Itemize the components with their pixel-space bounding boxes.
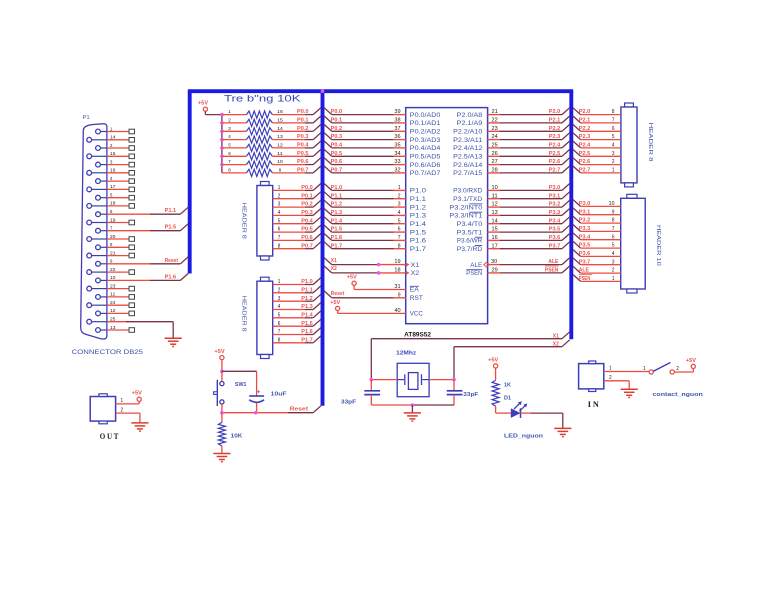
svg-text:+5V: +5V xyxy=(198,101,209,107)
header-right-8 pin 1 wire net P2.7 xyxy=(573,166,621,174)
junction dot resistor rail row 6 xyxy=(220,155,224,159)
svg-text:13: 13 xyxy=(492,210,498,216)
svg-text:P3.7/RD: P3.7/RD xyxy=(457,246,483,253)
header-left-upper pin 7 wire net P0.6 xyxy=(273,235,314,241)
svg-text:2: 2 xyxy=(110,143,113,148)
connector P1 pin 25 xyxy=(87,317,126,325)
svg-text:P0.1: P0.1 xyxy=(297,118,309,124)
U1 pin 36 P0.3/AD3 xyxy=(324,133,441,144)
svg-text:P0.4: P0.4 xyxy=(297,143,309,149)
svg-text:PSEN: PSEN xyxy=(545,267,559,273)
wire net P1.1 from DB25 to bus xyxy=(150,207,188,214)
wire +5V down to reset node xyxy=(220,360,224,373)
resistor network RN1 element 4 (10K) xyxy=(222,134,313,143)
bus entry P0.1 from resistor pack xyxy=(313,116,321,123)
U1 pin 30 ALE xyxy=(470,258,569,269)
svg-text:+5V: +5V xyxy=(132,391,143,397)
U1 pin 4 P1.3 xyxy=(324,209,426,220)
svg-text:15: 15 xyxy=(110,151,116,156)
resistor network RN1 element 8 (10K) xyxy=(222,168,313,177)
connector P1 pin 7 xyxy=(96,226,150,234)
svg-text:P3.6: P3.6 xyxy=(549,235,561,241)
LED D1 xyxy=(496,396,528,418)
svg-text:P3.7: P3.7 xyxy=(579,259,591,265)
header-left-upper pin 8 wire net P0.7 xyxy=(273,243,314,249)
resistor pack left rail xyxy=(221,115,223,173)
U1 pin 19 X1 xyxy=(324,258,419,269)
svg-text:P1.3: P1.3 xyxy=(301,304,313,310)
svg-text:16: 16 xyxy=(110,168,116,173)
svg-text:36: 36 xyxy=(394,134,400,140)
header-left-lower pin 7 wire net P1.6 xyxy=(273,329,314,335)
svg-text:29: 29 xyxy=(492,268,498,274)
svg-text:6: 6 xyxy=(612,234,615,240)
U1 pin 12 P3.2/INT0 xyxy=(449,200,569,211)
U1 pin 23 P2.2/A10 xyxy=(453,124,570,135)
U1 pin 8 P1.7 xyxy=(324,242,426,253)
svg-text:11: 11 xyxy=(277,151,283,157)
svg-text:P2.5/A13: P2.5/A13 xyxy=(453,154,482,161)
svg-text:P1.2: P1.2 xyxy=(331,202,343,208)
svg-text:P1.0: P1.0 xyxy=(301,279,313,285)
svg-text:10: 10 xyxy=(110,275,116,280)
connector IN body xyxy=(579,361,604,392)
header-right-8 pin 7 wire net P2.1 xyxy=(573,116,621,124)
header-left-lower pin 5 wire net P1.4 xyxy=(273,312,314,318)
svg-text:P1.5: P1.5 xyxy=(301,321,313,327)
svg-text:P2.3/A11: P2.3/A11 xyxy=(453,137,482,144)
svg-text:3: 3 xyxy=(612,259,615,265)
op-amp U1 AT89S52 body xyxy=(406,108,488,324)
svg-text:12: 12 xyxy=(492,202,498,208)
svg-text:P1.4: P1.4 xyxy=(410,221,426,228)
svg-text:8: 8 xyxy=(612,109,615,115)
svg-text:P3.5/T1: P3.5/T1 xyxy=(457,229,483,236)
svg-text:1K: 1K xyxy=(504,383,511,389)
svg-text:P3.4: P3.4 xyxy=(579,234,591,240)
svg-text:P0.6: P0.6 xyxy=(331,159,343,165)
svg-text:P1.7: P1.7 xyxy=(331,243,343,249)
label LED_nguon xyxy=(504,434,544,440)
U1 pin 13 P3.3/INT1 xyxy=(449,209,569,220)
U1 pin 17 P3.7/RD xyxy=(457,242,570,253)
svg-text:7: 7 xyxy=(398,235,401,241)
svg-text:P3.6/WR: P3.6/WR xyxy=(457,238,483,245)
svg-text:1: 1 xyxy=(121,398,124,404)
label 12Mhz xyxy=(396,350,416,356)
svg-text:+5V: +5V xyxy=(330,300,341,306)
bus entry P0.3 from header-left-upper xyxy=(313,209,321,216)
svg-text:12: 12 xyxy=(110,308,116,313)
svg-text:17: 17 xyxy=(492,243,498,249)
svg-text:7: 7 xyxy=(612,118,615,124)
bus entry P0.7 from resistor pack xyxy=(313,166,321,173)
svg-text:12: 12 xyxy=(277,143,283,149)
svg-text:P3.4/T0: P3.4/T0 xyxy=(457,221,483,228)
power +5V at switch xyxy=(686,358,697,369)
header-right-8 pin 5 wire net P2.3 xyxy=(573,133,621,141)
bus entry P0.7 from header-left-upper xyxy=(313,242,321,249)
bus entry P1.4 from header-left-lower xyxy=(313,311,321,318)
svg-text:P3.2/INT0: P3.2/INT0 xyxy=(449,204,482,211)
svg-text:P1.6: P1.6 xyxy=(410,238,426,245)
U1 pin 24 P2.3/A11 xyxy=(453,133,570,144)
svg-text:D1: D1 xyxy=(504,396,511,402)
wire net X1 from bus to crystal xyxy=(371,332,569,380)
svg-text:33pF: 33pF xyxy=(341,400,357,406)
IN pin 1 wire to switch xyxy=(604,366,649,372)
svg-text:P2.5: P2.5 xyxy=(579,151,591,157)
capacitor C3 10uF xyxy=(249,390,287,413)
resistor network RN1 element 1 (10K) xyxy=(222,109,313,118)
svg-text:P2.1: P2.1 xyxy=(579,118,591,124)
svg-text:18: 18 xyxy=(394,268,400,274)
svg-text:P3.4: P3.4 xyxy=(549,218,561,224)
svg-text:4: 4 xyxy=(278,210,281,216)
svg-text:8: 8 xyxy=(612,218,615,224)
bus entry P0.0 from resistor pack xyxy=(313,108,321,115)
connector HEADER 8 right body xyxy=(621,103,637,187)
wire rail to ground xyxy=(411,405,413,413)
IN pin 2 wire to ground xyxy=(604,375,629,390)
label HEADER 8 left lower (rotated) xyxy=(241,296,247,332)
svg-text:P1.5: P1.5 xyxy=(165,225,177,231)
svg-text:6: 6 xyxy=(278,227,281,233)
header-right-10 pin 4 wire net P3.6 xyxy=(573,250,621,258)
svg-text:ALE: ALE xyxy=(579,268,589,274)
svg-text:19: 19 xyxy=(394,259,400,265)
junction dot resistor rail row 3 xyxy=(220,130,224,134)
switch SW1 push button xyxy=(214,371,247,412)
svg-text:4: 4 xyxy=(228,134,231,140)
capacitor C1 33pF left xyxy=(341,380,380,406)
svg-text:2: 2 xyxy=(278,193,281,199)
connector P1 pin 5 xyxy=(96,193,135,201)
svg-text:26: 26 xyxy=(492,151,498,157)
junction dot resistor rail row 5 xyxy=(220,146,224,150)
svg-text:3: 3 xyxy=(612,151,615,157)
svg-text:X1: X1 xyxy=(331,258,337,264)
svg-text:P0.3/AD3: P0.3/AD3 xyxy=(410,137,441,144)
label P1 xyxy=(83,115,90,121)
svg-text:31: 31 xyxy=(394,284,400,290)
connector P1 pin 22 xyxy=(87,267,135,275)
svg-text:P1.2: P1.2 xyxy=(410,204,426,211)
capacitor C2 33pF right xyxy=(447,380,479,405)
header-left-upper pin 2 wire net P0.1 xyxy=(273,193,314,199)
bus entry P1.6 from header-left-lower xyxy=(313,328,321,335)
U1 pin 25 P2.4/A12 xyxy=(453,141,570,152)
header-left-upper pin 5 wire net P0.4 xyxy=(273,218,314,224)
svg-text:22: 22 xyxy=(492,118,498,124)
svg-text:P0.5: P0.5 xyxy=(297,151,309,157)
svg-text:7: 7 xyxy=(278,329,281,335)
U1 pin 9 RST wire net Reset xyxy=(324,291,423,302)
svg-text:8: 8 xyxy=(278,337,281,343)
header-right-10 pin 6 wire net P3.4 xyxy=(573,233,621,241)
svg-text:P0.7: P0.7 xyxy=(301,243,313,249)
svg-text:5: 5 xyxy=(228,143,231,149)
svg-text:35: 35 xyxy=(394,143,400,149)
svg-text:10: 10 xyxy=(492,185,498,191)
header-right-8 pin 2 wire net P2.6 xyxy=(573,158,621,166)
svg-text:12Mhz: 12Mhz xyxy=(396,350,416,356)
svg-text:P0.2: P0.2 xyxy=(331,126,343,132)
bus entry P1.5 from header-left-lower xyxy=(313,319,321,326)
svg-text:1: 1 xyxy=(612,276,615,282)
header-left-lower pin 2 wire net P1.1 xyxy=(273,287,314,293)
connector P1 pin 15 xyxy=(87,151,135,159)
wire +5V to resistor pack rail xyxy=(205,111,222,114)
svg-text:19: 19 xyxy=(110,217,116,222)
bus entry P0.5 from resistor pack xyxy=(313,149,321,156)
svg-text:P2.4: P2.4 xyxy=(549,143,561,149)
svg-text:P2.0/A8: P2.0/A8 xyxy=(457,112,483,119)
bus entry P0.6 from header-left-upper xyxy=(313,234,321,241)
svg-text:P2.3: P2.3 xyxy=(549,134,561,140)
U1 pin 22 P2.1/A9 xyxy=(457,116,570,127)
svg-text:10K: 10K xyxy=(231,434,243,440)
svg-text:P2.7: P2.7 xyxy=(549,168,561,174)
svg-text:15: 15 xyxy=(492,227,498,233)
label HEADER 10 right (rotated) xyxy=(655,225,661,266)
svg-text:7: 7 xyxy=(612,226,615,232)
connector P1 pin 23 xyxy=(87,283,135,291)
svg-text:P3.2: P3.2 xyxy=(549,202,561,208)
svg-text:16: 16 xyxy=(492,235,498,241)
bus entry P1.1 from header-left-lower xyxy=(313,286,321,293)
svg-text:P1.7: P1.7 xyxy=(410,246,426,253)
svg-text:P0.7/AD7: P0.7/AD7 xyxy=(410,170,441,177)
U1 pin 14 P3.4/T0 xyxy=(457,217,570,228)
svg-text:contact_nguon: contact_nguon xyxy=(653,392,704,398)
svg-text:9: 9 xyxy=(612,209,615,215)
header-left-lower pin 4 wire net P1.3 xyxy=(273,304,314,310)
svg-text:14: 14 xyxy=(277,126,283,132)
resistor R2 1K xyxy=(492,368,511,413)
svg-text:4: 4 xyxy=(278,304,281,310)
wire net P1.5 from DB25 to bus xyxy=(150,224,188,231)
svg-text:6: 6 xyxy=(228,151,231,157)
svg-text:13: 13 xyxy=(277,134,283,140)
U1 pin 7 P1.6 xyxy=(324,234,426,245)
power +5V at VCC pin xyxy=(330,300,341,311)
connector P1 pin 2 xyxy=(96,143,135,151)
connector HEADER 10 right body xyxy=(621,194,646,293)
header-right-8 pin 4 wire net P2.4 xyxy=(573,141,621,149)
svg-text:P2.6: P2.6 xyxy=(549,159,561,165)
U1 pin 5 P1.4 xyxy=(324,217,426,228)
svg-text:P2.1: P2.1 xyxy=(549,118,561,124)
svg-text:SW1: SW1 xyxy=(235,382,247,388)
U1 pin 37 P0.2/AD2 xyxy=(324,124,441,135)
svg-text:11: 11 xyxy=(492,193,498,199)
svg-text:28: 28 xyxy=(492,168,498,174)
wire crystal bottom rail xyxy=(371,403,454,407)
svg-text:P3.3: P3.3 xyxy=(579,226,591,232)
wire net Reset bottom run to bus xyxy=(220,406,321,415)
svg-text:P1.2: P1.2 xyxy=(301,296,313,302)
connector HEADER 8 left lower body xyxy=(257,277,273,358)
resistor network RN1 element 7 (10K) xyxy=(222,159,313,168)
svg-text:21: 21 xyxy=(110,250,116,255)
svg-text:+5V: +5V xyxy=(686,358,697,364)
bus vertical middle xyxy=(321,91,325,406)
svg-text:24: 24 xyxy=(492,134,498,140)
junction dot resistor rail row 1 xyxy=(220,113,224,117)
header-right-8 pin 8 wire net P2.0 xyxy=(573,108,621,116)
wire crystal left node xyxy=(370,378,398,382)
connector P1 pin 17 xyxy=(87,184,135,192)
svg-text:5: 5 xyxy=(398,218,401,224)
svg-text:P3.3: P3.3 xyxy=(549,210,561,216)
svg-text:P0.3: P0.3 xyxy=(297,134,309,140)
resistor network RN1 element 2 (10K) xyxy=(222,118,313,127)
svg-text:P2.5: P2.5 xyxy=(549,151,561,157)
junction dot bus top middle xyxy=(321,89,325,93)
svg-text:37: 37 xyxy=(394,126,400,132)
svg-text:3: 3 xyxy=(278,296,281,302)
svg-text:14: 14 xyxy=(110,135,116,140)
svg-text:18: 18 xyxy=(110,201,116,206)
svg-text:2: 2 xyxy=(609,375,612,381)
svg-text:PSEN: PSEN xyxy=(579,276,591,282)
svg-text:34: 34 xyxy=(394,151,400,157)
header-right-8 pin 3 wire net P2.5 xyxy=(573,149,621,157)
svg-text:P1.0: P1.0 xyxy=(410,188,426,195)
label OUT xyxy=(100,432,120,441)
power +5V reset circuit xyxy=(214,349,225,360)
wire net P1.6 from DB25 to bus xyxy=(150,274,188,281)
svg-text:P3.0: P3.0 xyxy=(579,201,591,207)
svg-text:Reset: Reset xyxy=(290,407,309,413)
svg-text:X2: X2 xyxy=(411,270,420,277)
svg-text:24: 24 xyxy=(110,300,116,305)
svg-text:P0.7: P0.7 xyxy=(297,168,309,174)
svg-text:P0.3: P0.3 xyxy=(301,210,313,216)
wire DB25 pin 25 to ground xyxy=(126,322,173,338)
svg-text:P1.5: P1.5 xyxy=(331,227,343,233)
bus entry P1.2 from header-left-lower xyxy=(313,294,321,301)
resistor network RN1 element 5 (10K) xyxy=(222,143,313,152)
junction dot resistor rail row 4 xyxy=(220,138,224,142)
svg-text:P0.2/AD2: P0.2/AD2 xyxy=(410,129,441,136)
U1 pin 3 P1.2 xyxy=(324,200,426,211)
wire net Reset from DB25 to bus xyxy=(150,257,188,264)
svg-text:21: 21 xyxy=(492,109,498,115)
svg-text:2: 2 xyxy=(398,193,401,199)
svg-text:X1: X1 xyxy=(411,262,420,269)
U1 pin 27 P2.6/A14 xyxy=(453,158,570,169)
header-right-10 pin 1 wire net PSEN xyxy=(573,275,621,283)
svg-text:P2.4: P2.4 xyxy=(579,143,591,149)
junction dot resistor rail row 7 xyxy=(220,163,224,167)
svg-text:2: 2 xyxy=(278,287,281,293)
U1 pin 29 PSEN xyxy=(466,266,569,277)
connector P1 pin 19 xyxy=(87,217,135,225)
U1 pin 2 P1.1 xyxy=(324,192,426,203)
U1 pin 33 P0.6/AD6 xyxy=(324,158,441,169)
svg-text:P2.1/A9: P2.1/A9 xyxy=(457,120,483,127)
svg-text:6: 6 xyxy=(110,209,113,214)
svg-text:CONNECTOR DB25: CONNECTOR DB25 xyxy=(72,350,144,356)
wire crystal right node xyxy=(429,378,456,382)
resistor network RN1 element 6 (10K) xyxy=(222,151,313,160)
svg-text:25: 25 xyxy=(492,143,498,149)
svg-text:10uF: 10uF xyxy=(271,392,287,398)
header-right-10 pin 7 wire net P3.3 xyxy=(573,225,621,233)
svg-text:P0.1: P0.1 xyxy=(331,118,343,124)
svg-text:P3.7: P3.7 xyxy=(549,243,561,249)
ground symbol crystal xyxy=(404,413,421,421)
header-left-upper pin 1 wire net P0.0 xyxy=(273,185,314,191)
svg-text:AT89S52: AT89S52 xyxy=(404,332,432,338)
svg-text:P1.0: P1.0 xyxy=(331,185,343,191)
bus top horizontal rail xyxy=(188,89,573,93)
connector P1 pin 16 xyxy=(87,168,135,176)
svg-text:P0.1: P0.1 xyxy=(301,193,313,199)
bus entry P0.6 from resistor pack xyxy=(313,158,321,165)
svg-text:8: 8 xyxy=(278,243,281,249)
connector P1 pin 13 xyxy=(96,325,135,333)
label IN xyxy=(588,400,601,409)
label AT89S52 xyxy=(404,332,432,338)
power +5V at OUT xyxy=(132,391,143,402)
svg-text:P0.5: P0.5 xyxy=(331,151,343,157)
power +5V LED xyxy=(488,357,499,368)
svg-text:9: 9 xyxy=(110,259,113,264)
svg-text:6: 6 xyxy=(398,227,401,233)
svg-text:P1.7: P1.7 xyxy=(301,337,313,343)
header-left-upper pin 4 wire net P0.3 xyxy=(273,210,314,216)
svg-text:22: 22 xyxy=(110,267,116,272)
svg-text:LED_nguon: LED_nguon xyxy=(504,434,544,440)
svg-text:HEADER 8: HEADER 8 xyxy=(647,123,653,162)
svg-text:P0.4/AD4: P0.4/AD4 xyxy=(410,145,441,152)
svg-text:40: 40 xyxy=(394,308,400,314)
svg-text:25: 25 xyxy=(110,317,116,322)
svg-text:Reset: Reset xyxy=(331,291,345,297)
header-right-10 pin 8 wire net P3.2 xyxy=(573,216,621,224)
wire net X2 from bus to crystal xyxy=(454,340,570,380)
svg-text:P1.6: P1.6 xyxy=(331,235,343,241)
bus entry P0.2 from resistor pack xyxy=(313,124,321,131)
svg-text:ALE: ALE xyxy=(548,259,558,265)
connector P1 pin 8 xyxy=(96,242,135,250)
svg-text:P3.0: P3.0 xyxy=(549,185,561,191)
bus entry P1.0 from header-left-lower xyxy=(313,278,321,285)
U1 pin 10 P3.0/RXD xyxy=(453,184,570,195)
svg-text:P2.2: P2.2 xyxy=(549,126,561,132)
svg-text:5: 5 xyxy=(278,312,281,318)
svg-text:27: 27 xyxy=(492,159,498,165)
svg-text:HEADER 8: HEADER 8 xyxy=(241,296,247,332)
U1 pin 31 EA wire xyxy=(354,284,419,294)
svg-text:30: 30 xyxy=(491,259,497,265)
svg-text:P1.3: P1.3 xyxy=(331,210,343,216)
svg-text:23: 23 xyxy=(492,126,498,132)
svg-text:4: 4 xyxy=(110,176,113,181)
U1 pin 32 P0.7/AD7 xyxy=(324,166,441,177)
ground symbol LED xyxy=(554,428,571,436)
bus entry P0.3 from resistor pack xyxy=(313,133,321,140)
svg-text:HEADER 8: HEADER 8 xyxy=(241,203,247,239)
bus entry P0.0 from header-left-upper xyxy=(313,184,321,191)
header-right-10 pin 2 wire net ALE xyxy=(573,266,621,274)
header-left-lower pin 1 wire net P1.0 xyxy=(273,279,314,285)
connector HEADER 8 left upper body xyxy=(257,182,273,261)
svg-text:6: 6 xyxy=(278,321,281,327)
